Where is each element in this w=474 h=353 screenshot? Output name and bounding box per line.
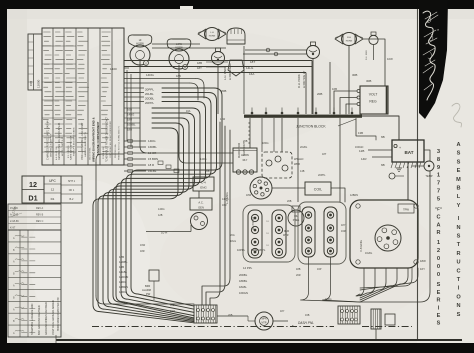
svg-text:S: S xyxy=(457,159,461,165)
svg-text:REV C: REV C xyxy=(36,220,44,223)
svg-text:BZR: BZR xyxy=(145,284,150,288)
svg-text:D1: D1 xyxy=(51,197,55,201)
svg-text:20LBL: 20LBL xyxy=(300,146,308,149)
svg-text:12BRN: 12BRN xyxy=(350,194,358,197)
svg-text:E: E xyxy=(457,168,461,174)
svg-text:20LBL: 20LBL xyxy=(145,92,154,96)
svg-text:HORN: HORN xyxy=(175,46,183,50)
svg-text:MTR: MTR xyxy=(262,323,267,325)
svg-text:12000: 12000 xyxy=(37,79,41,88)
svg-text:18W: 18W xyxy=(220,118,226,121)
svg-text:18Y: 18Y xyxy=(341,224,346,227)
svg-text:PW: PW xyxy=(146,292,151,296)
svg-text:REV B: REV B xyxy=(36,214,44,217)
svg-text:14DG: 14DG xyxy=(158,208,165,211)
svg-text:14 PPL: 14 PPL xyxy=(243,266,253,270)
svg-text:10 H: 10 H xyxy=(161,231,167,235)
svg-text:20PPL: 20PPL xyxy=(145,87,154,91)
svg-text:HORN: HORN xyxy=(209,35,216,37)
svg-text:+: + xyxy=(399,146,401,150)
svg-text:REG: REG xyxy=(369,100,377,104)
svg-text:JUNCTION BLOCK: JUNCTION BLOCK xyxy=(296,125,326,129)
svg-text:12: 12 xyxy=(51,188,55,192)
svg-text:0: 0 xyxy=(437,264,440,270)
svg-text:ENG: ENG xyxy=(200,186,207,190)
svg-text:L: L xyxy=(457,194,461,200)
svg-text:DASH PNL: DASH PNL xyxy=(298,321,314,325)
svg-text:14B: 14B xyxy=(300,170,305,173)
svg-text:14DG: 14DG xyxy=(148,139,156,143)
svg-text:18LBL: 18LBL xyxy=(119,270,128,274)
svg-text:12: 12 xyxy=(29,180,37,189)
svg-text:16R: 16R xyxy=(341,230,346,233)
svg-text:18R: 18R xyxy=(140,250,145,253)
svg-text:14LG: 14LG xyxy=(246,66,254,70)
svg-text:16DBL: 16DBL xyxy=(119,260,128,264)
svg-text:T: T xyxy=(457,277,461,283)
svg-text:18B: 18B xyxy=(170,304,175,307)
svg-text:U: U xyxy=(456,260,460,266)
svg-text:CHANGED PER ECL 14071 MAR-64: CHANGED PER ECL 14071 MAR-64 xyxy=(47,120,50,160)
svg-text:16DGN: 16DGN xyxy=(355,146,364,149)
svg-text:VOLT REG GROUND ADDED: VOLT REG GROUND ADDED xyxy=(51,300,55,335)
svg-text:18T: 18T xyxy=(250,60,255,64)
svg-text:S: S xyxy=(457,312,461,318)
svg-text:14DG: 14DG xyxy=(200,158,207,161)
svg-text:REV A: REV A xyxy=(36,207,43,210)
svg-text:OF 1: OF 1 xyxy=(69,189,75,192)
svg-text:20PPL: 20PPL xyxy=(145,101,154,105)
svg-text:REVISED PER ECL 16420 JUN-64: REVISED PER ECL 16420 JUN-64 xyxy=(58,122,61,160)
svg-text:18Y: 18Y xyxy=(280,310,285,313)
svg-text:K-97: K-97 xyxy=(10,227,16,230)
svg-text:R.H. PARK: R.H. PARK xyxy=(297,74,301,88)
svg-text:20B: 20B xyxy=(243,140,248,143)
svg-text:COPYRIGHT ALL RIGHTS RESERVED: COPYRIGHT ALL RIGHTS RESERVED xyxy=(109,121,112,158)
svg-text:D1: D1 xyxy=(28,194,37,203)
svg-text:V-8 ENG: V-8 ENG xyxy=(359,239,363,252)
svg-text:7: 7 xyxy=(437,181,440,187)
svg-text:18W: 18W xyxy=(420,259,426,263)
svg-text:SHT 1: SHT 1 xyxy=(68,180,76,183)
svg-text:18B: 18B xyxy=(296,268,301,271)
svg-text:18 R: 18 R xyxy=(148,163,154,167)
svg-text:& DIR SIG LP: & DIR SIG LP xyxy=(302,71,306,88)
svg-text:12B: 12B xyxy=(158,214,163,217)
svg-text:14DG: 14DG xyxy=(146,73,155,77)
svg-text:13B: 13B xyxy=(358,131,363,135)
svg-text:15 BRN: 15 BRN xyxy=(148,157,158,161)
svg-text:FWD LAMP WIRING - ENG COMP: FWD LAMP WIRING - ENG COMP xyxy=(81,122,84,160)
svg-text:12B: 12B xyxy=(119,255,124,259)
svg-text:A.C.: A.C. xyxy=(198,201,203,205)
svg-text:6B: 6B xyxy=(381,163,385,167)
svg-text:HORN: HORN xyxy=(136,42,144,46)
svg-text:0: 0 xyxy=(437,256,440,262)
svg-text:HARNESS ASM 3891775: HARNESS ASM 3891775 xyxy=(84,131,87,157)
svg-text:R: R xyxy=(437,298,441,304)
svg-text:ALARM: ALARM xyxy=(142,288,151,292)
svg-text:18DG: 18DG xyxy=(119,290,126,294)
svg-text:16LBL: 16LBL xyxy=(148,169,157,173)
svg-text:R.H: R.H xyxy=(347,37,351,39)
svg-text:PRINTED IN U.S.A. FORM 3891775: PRINTED IN U.S.A. FORM 3891775 xyxy=(118,125,121,160)
svg-text:B 2-7-65 W.S.: B 2-7-65 W.S. xyxy=(68,145,70,158)
svg-text:L-4: L-4 xyxy=(201,181,206,185)
svg-text:16DGN: 16DGN xyxy=(239,291,248,295)
svg-text:UPC: UPC xyxy=(49,179,56,183)
svg-text:A 6-12-64 J.H.: A 6-12-64 J.H. xyxy=(55,146,58,160)
svg-text:S: S xyxy=(437,321,441,327)
svg-text:18DG: 18DG xyxy=(262,142,269,145)
svg-text:L.H: L.H xyxy=(210,32,214,34)
svg-text:HI: HI xyxy=(139,38,142,42)
svg-text:S: S xyxy=(437,282,441,288)
svg-text:20B: 20B xyxy=(228,314,233,317)
svg-text:C05: C05 xyxy=(29,80,33,86)
svg-text:0: 0 xyxy=(437,272,440,278)
svg-text:30B: 30B xyxy=(352,73,357,77)
svg-text:BAT: BAT xyxy=(404,150,413,155)
svg-text:14R: 14R xyxy=(361,157,367,161)
svg-text:S: S xyxy=(457,151,461,157)
svg-text:BRN/Q/PPL: BRN/Q/PPL xyxy=(251,248,266,252)
svg-text:E: E xyxy=(437,290,441,296)
svg-text:PRINTED USA: PRINTED USA xyxy=(114,144,117,158)
svg-text:DWG REL 2-64 APP W.F.: DWG REL 2-64 APP W.F. xyxy=(50,133,53,157)
svg-text:1400: 1400 xyxy=(110,67,117,71)
svg-text:WPR: WPR xyxy=(261,319,267,321)
svg-text:16LBL: 16LBL xyxy=(365,252,373,255)
svg-text:N: N xyxy=(456,303,460,309)
svg-text:18LBL: 18LBL xyxy=(239,285,247,289)
svg-text:COIL: COIL xyxy=(314,188,322,192)
svg-text:WPR: WPR xyxy=(294,162,300,166)
svg-text:10 OR: 10 OR xyxy=(148,151,156,155)
svg-text:E: E xyxy=(437,313,441,319)
svg-text:A-124Z: A-124Z xyxy=(10,214,19,217)
svg-text:18B: 18B xyxy=(119,265,124,269)
svg-text:16Y: 16Y xyxy=(420,267,425,271)
svg-text:PRES: PRES xyxy=(293,219,300,222)
svg-text:A: A xyxy=(456,142,460,148)
svg-text:20B: 20B xyxy=(205,170,210,173)
svg-text:16P: 16P xyxy=(317,268,322,271)
svg-text:STEWMAN & REECE ADD: STEWMAN & REECE ADD xyxy=(30,303,34,335)
svg-text:15-346: 15-346 xyxy=(10,207,18,210)
svg-text:RLY: RLY xyxy=(243,158,248,162)
svg-text:C: C xyxy=(456,268,460,274)
svg-text:C: C xyxy=(437,215,441,221)
svg-text:30B: 30B xyxy=(366,79,371,83)
svg-text:16A: 16A xyxy=(249,72,254,76)
svg-text:HORN: HORN xyxy=(346,40,353,42)
svg-text:18B: 18B xyxy=(176,74,181,78)
svg-text:B-2: B-2 xyxy=(70,198,75,201)
svg-text:16W: 16W xyxy=(140,244,146,247)
svg-text:*CHEVROLET FISHER DIVISION GMC: *CHEVROLET FISHER DIVISION GMC* xyxy=(106,117,109,162)
svg-text:20DBL: 20DBL xyxy=(145,96,155,100)
svg-text:18W: 18W xyxy=(246,194,252,197)
svg-text:16DGN: 16DGN xyxy=(119,275,128,279)
svg-text:7: 7 xyxy=(437,189,440,195)
svg-text:N: N xyxy=(456,225,460,231)
svg-text:WIRING DIAGRAM-FRONT END &: WIRING DIAGRAM-FRONT END & xyxy=(92,117,96,162)
svg-text:16W: 16W xyxy=(170,310,176,313)
svg-text:16DBL: 16DBL xyxy=(148,145,157,149)
svg-text:APP R.L. DATE 6-12: APP R.L. DATE 6-12 xyxy=(61,136,64,156)
svg-text:20R: 20R xyxy=(296,274,301,277)
svg-text:Y: Y xyxy=(457,203,461,209)
svg-text:G: G xyxy=(145,62,147,66)
svg-text:T: T xyxy=(457,242,461,248)
svg-text:20B: 20B xyxy=(317,92,322,96)
svg-text:& DIR SIG LP: & DIR SIG LP xyxy=(228,63,232,80)
svg-text:16B: 16B xyxy=(305,314,310,317)
svg-text:20PPL: 20PPL xyxy=(318,174,326,177)
svg-text:TRW: TRW xyxy=(403,208,409,212)
svg-text:18T: 18T xyxy=(322,153,327,156)
svg-text:12B: 12B xyxy=(359,149,364,153)
svg-text:10PPL: 10PPL xyxy=(237,248,246,252)
svg-text:FORM A-124: FORM A-124 xyxy=(102,146,105,159)
svg-text:R: R xyxy=(456,251,460,257)
svg-text:M: M xyxy=(456,177,461,183)
svg-text:20G: 20G xyxy=(230,234,235,237)
svg-text:14DG: 14DG xyxy=(222,198,229,201)
svg-text:3891775 REL: 3891775 REL xyxy=(90,146,92,160)
svg-text:WSHLD: WSHLD xyxy=(294,157,303,161)
svg-text:20B: 20B xyxy=(287,200,292,203)
svg-text:HORN WIRES REROUTED 2-66: HORN WIRES REROUTED 2-66 xyxy=(58,297,60,331)
svg-text:ENGINE COMPARTMENT: ENGINE COMPARTMENT xyxy=(96,121,100,155)
svg-text:6B: 6B xyxy=(381,135,385,139)
svg-text:18LG: 18LG xyxy=(230,240,236,243)
svg-text:16A: 16A xyxy=(186,110,191,113)
svg-text:16R: 16R xyxy=(222,204,227,207)
svg-text:18DBL: 18DBL xyxy=(239,279,248,283)
svg-text:BAT. GROUND REVISED: BAT. GROUND REVISED xyxy=(37,305,41,335)
svg-text:A: A xyxy=(437,222,441,228)
svg-text:GROUND WIRES REVISED: GROUND WIRES REVISED xyxy=(44,302,48,335)
svg-text:18BRN: 18BRN xyxy=(119,285,128,289)
svg-text:VOLT: VOLT xyxy=(369,93,378,97)
svg-text:"F": "F" xyxy=(435,206,442,211)
svg-text:18DG: 18DG xyxy=(325,298,332,301)
svg-text:B: B xyxy=(456,186,460,192)
svg-text:2: 2 xyxy=(437,248,440,254)
svg-text:14DG: 14DG xyxy=(119,280,126,284)
svg-text:HORN: HORN xyxy=(241,153,249,157)
svg-text:TEMP: TEMP xyxy=(425,174,432,178)
svg-text:GEN: GEN xyxy=(198,206,204,210)
svg-text:2-18-66: 2-18-66 xyxy=(10,220,19,223)
svg-text:R.H. MKR: R.H. MKR xyxy=(366,50,368,60)
svg-text:20DBL: 20DBL xyxy=(239,273,248,277)
svg-text:S: S xyxy=(457,234,461,240)
svg-text:RLM: RLM xyxy=(284,230,289,233)
svg-text:L.H. PARK: L.H. PARK xyxy=(223,67,227,80)
svg-text:O: O xyxy=(456,294,461,300)
svg-text:R: R xyxy=(437,230,441,236)
svg-text:18B: 18B xyxy=(197,61,202,65)
svg-text:16B: 16B xyxy=(332,87,337,91)
svg-text:10W: 10W xyxy=(387,57,393,61)
